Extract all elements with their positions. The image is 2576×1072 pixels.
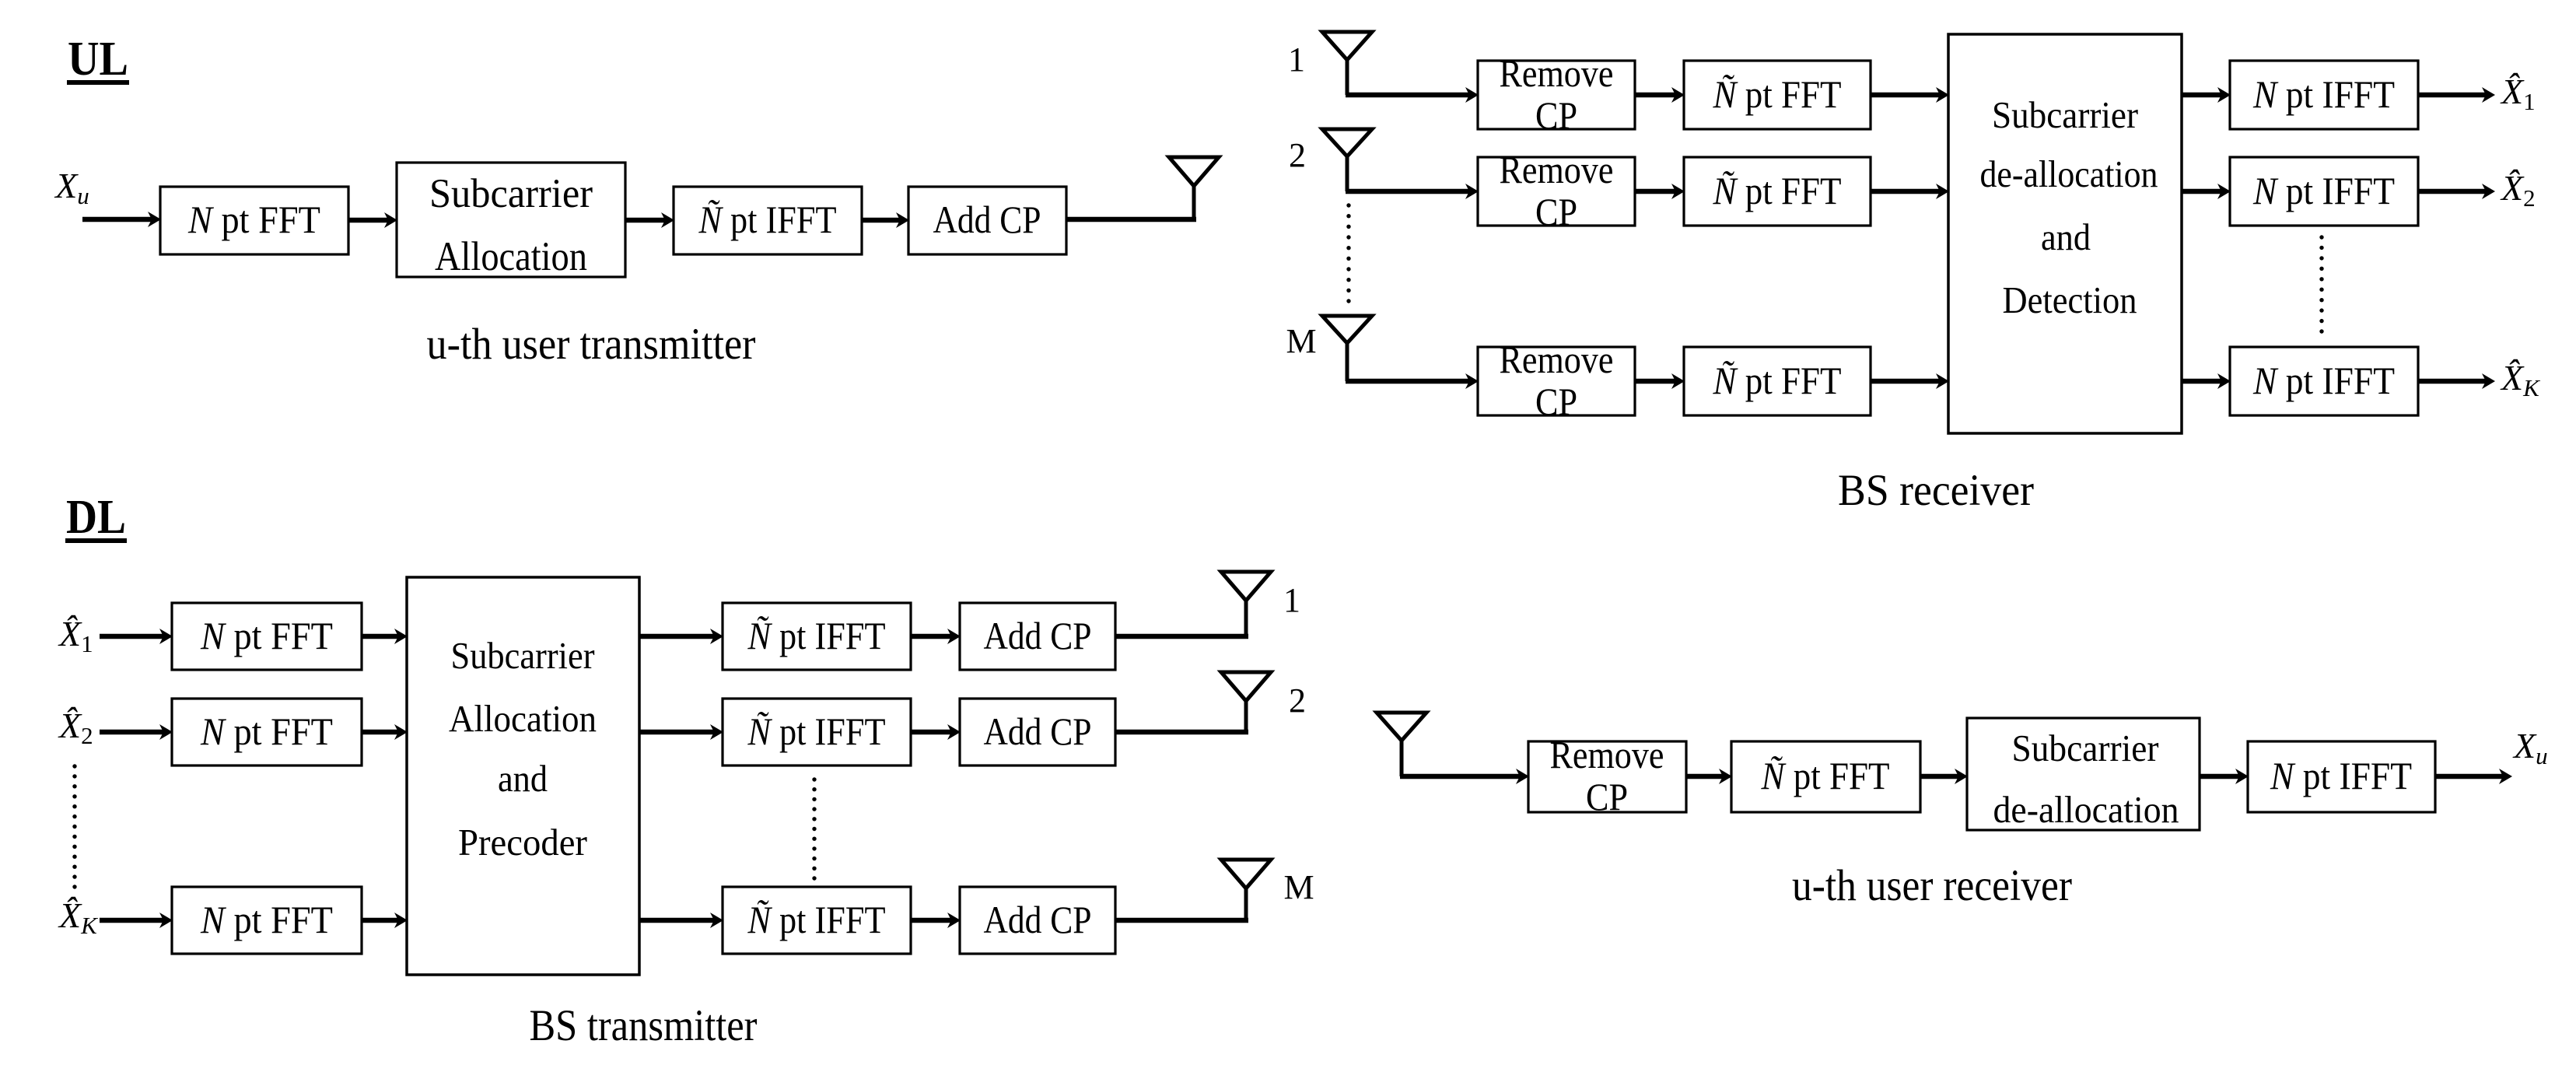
svg-text:and: and <box>498 757 548 800</box>
wire Remove CP to Ntilde pt FFT (row M) <box>1635 373 1685 389</box>
svg-text:Precoder: Precoder <box>458 821 587 864</box>
wire N pt IFFT to X^1 <box>2418 87 2495 103</box>
svg-text:and: and <box>2041 215 2091 258</box>
block Ntilde pt IFFT (DL row 2) <box>723 699 911 765</box>
wire N pt FFT to Allocation Precoder (row 1) <box>362 629 408 644</box>
antenna 2 (DL) <box>1221 672 1271 701</box>
svg-text:de-allocation: de-allocation <box>1980 152 2158 195</box>
wire Add CP to antenna 2 (DL) <box>1115 730 1248 735</box>
antenna 1 (DL) <box>1221 572 1271 601</box>
wire Remove CP to Ntilde pt FFT (row 1) <box>1635 87 1685 103</box>
block Ntilde pt IFFT (DL row M) <box>723 887 911 954</box>
wire de-allocation to N pt IFFT (row M) <box>2182 373 2231 389</box>
antenna (UL tx) <box>1169 157 1219 186</box>
svg-text:BS transmitter: BS transmitter <box>530 1001 758 1050</box>
title DL underline <box>65 538 127 543</box>
block Subcarrier Allocation <box>397 163 625 277</box>
wire Ntilde pt FFT to de-allocation (row M) <box>1871 373 1949 389</box>
wire Ntilde pt IFFT to Add CP (row 2) <box>911 724 961 740</box>
svg-text:Ñ pt IFFT: Ñ pt IFFT <box>747 614 886 657</box>
antenna M stem (BS rx) <box>1346 343 1349 381</box>
svg-text:1: 1 <box>1283 581 1300 619</box>
dotted line inputs 2..K (DL) <box>72 764 76 888</box>
antenna stem (UL tx) <box>1192 186 1196 219</box>
svg-text:Add CP: Add CP <box>933 198 1041 241</box>
svg-text:CP: CP <box>1535 380 1577 423</box>
antenna stem (user rx) <box>1400 741 1404 776</box>
wire Allocation Precoder to Ntilde pt IFFT (row M) <box>639 913 723 928</box>
wire N pt FFT to Subcarrier Allocation <box>348 212 397 228</box>
svg-text:CP: CP <box>1535 93 1577 137</box>
dotted line antennas 2..M (BS rx) <box>1346 203 1350 303</box>
dotted line N pt IFFT 2..K (BS rx) <box>2319 235 2323 333</box>
block Subcarrier de-allocation and Detection <box>1948 34 2182 433</box>
svg-text:1: 1 <box>1288 40 1305 79</box>
wire Allocation Precoder to Ntilde pt IFFT (row 2) <box>639 724 723 740</box>
wire N pt FFT to Allocation Precoder (row 2) <box>362 724 408 740</box>
block Subcarrier Allocation and Precoder <box>407 577 639 975</box>
svg-text:N pt IFFT: N pt IFFT <box>2270 754 2412 797</box>
wire Ntilde pt FFT to de-allocation (row 2) <box>1871 184 1949 199</box>
svg-text:N pt IFFT: N pt IFFT <box>2252 359 2395 402</box>
block N pt IFFT (BS rx row M) <box>2230 347 2418 415</box>
svg-text:Ñ pt FFT: Ñ pt FFT <box>1713 359 1842 402</box>
wire de-allocation to N pt IFFT (row 2) <box>2182 184 2231 199</box>
wire antenna 2 to Remove CP <box>1346 184 1479 199</box>
block N pt FFT (DL row 2) <box>172 699 362 765</box>
block Add CP (UL) <box>908 187 1066 254</box>
antenna M (DL) <box>1221 860 1271 888</box>
svg-text:Remove: Remove <box>1500 148 1614 191</box>
block Remove CP (BS rx row 1) <box>1478 61 1635 129</box>
block Ntilde pt FFT (BS rx row 1) <box>1684 61 1871 129</box>
wire N pt IFFT to X^K <box>2418 373 2495 389</box>
svg-text:Remove: Remove <box>1550 733 1664 776</box>
svg-text:u-th user transmitter: u-th user transmitter <box>427 320 756 369</box>
wire de-allocation to N pt IFFT (user rx) <box>2200 769 2249 784</box>
block Subcarrier de-allocation (user rx) <box>1967 718 2200 830</box>
svg-text:Allocation: Allocation <box>449 697 597 740</box>
wire Add CP to antenna 1 (DL) <box>1115 634 1248 639</box>
svg-text:Allocation: Allocation <box>435 234 587 279</box>
wire Ntilde pt IFFT to Add CP (row M) <box>911 913 961 928</box>
wire Allocation Precoder to Ntilde pt IFFT (row 1) <box>639 629 723 644</box>
svg-text:BS receiver: BS receiver <box>1838 466 2034 515</box>
svg-text:UL: UL <box>68 33 128 86</box>
title UL underline <box>67 80 129 85</box>
svg-text:Subcarrier: Subcarrier <box>429 171 593 216</box>
wire N pt IFFT to Xu output <box>2435 769 2512 784</box>
svg-text:Ñ pt IFFT: Ñ pt IFFT <box>698 198 837 241</box>
svg-text:N pt FFT: N pt FFT <box>200 898 333 941</box>
svg-text:Subcarrier: Subcarrier <box>1992 93 2138 136</box>
wire Ntilde pt FFT to de-allocation (row 1) <box>1871 87 1949 103</box>
svg-text:CP: CP <box>1586 775 1628 818</box>
svg-text:N pt FFT: N pt FFT <box>200 614 333 657</box>
block Add CP (DL row 1) <box>960 603 1115 670</box>
block N pt FFT (DL row 1) <box>172 603 362 670</box>
antenna 1 stem (DL) <box>1244 599 1248 636</box>
svg-text:N pt FFT: N pt FFT <box>187 198 320 241</box>
antenna 1 (BS rx) <box>1322 32 1372 60</box>
block Remove CP (BS rx row 2) <box>1478 157 1635 226</box>
svg-text:Remove: Remove <box>1500 338 1614 381</box>
svg-text:N pt IFFT: N pt IFFT <box>2252 72 2395 116</box>
svg-text:M: M <box>1283 868 1314 906</box>
block Add CP (DL row M) <box>960 887 1115 954</box>
svg-text:Subcarrier: Subcarrier <box>2012 727 2159 769</box>
svg-text:Ñ pt FFT: Ñ pt FFT <box>1713 72 1842 116</box>
svg-text:CP: CP <box>1535 190 1577 233</box>
antenna M (BS rx) <box>1322 316 1372 343</box>
svg-text:Detection: Detection <box>2003 279 2137 321</box>
svg-text:Subcarrier: Subcarrier <box>451 634 595 677</box>
wire Ntilde pt IFFT to Add CP <box>862 212 909 228</box>
svg-text:DL: DL <box>66 491 126 544</box>
svg-text:de-allocation: de-allocation <box>1993 788 2179 831</box>
wire N pt FFT to Allocation Precoder (row M) <box>362 913 408 928</box>
svg-text:Ñ pt FFT: Ñ pt FFT <box>1761 754 1890 797</box>
block Ntilde pt FFT (user rx) <box>1731 741 1920 812</box>
block N pt FFT (UL) <box>160 187 348 254</box>
svg-text:2: 2 <box>1289 136 1306 174</box>
antenna 2 stem (DL) <box>1244 699 1248 732</box>
wire Ntilde pt FFT to de-allocation (user rx) <box>1920 769 1968 784</box>
svg-text:Add CP: Add CP <box>984 614 1092 657</box>
wire Remove CP to Ntilde pt FFT (row 2) <box>1635 184 1685 199</box>
block Remove CP (user rx) <box>1528 741 1686 812</box>
wire Xu to N pt FFT <box>82 212 161 227</box>
antenna 2 stem (BS rx) <box>1346 156 1349 191</box>
antenna 1 stem (BS rx) <box>1346 60 1349 95</box>
wire Add CP to antenna M (DL) <box>1115 918 1248 923</box>
svg-text:Ñ pt FFT: Ñ pt FFT <box>1713 169 1842 212</box>
block N pt FFT (DL row M) <box>172 887 362 954</box>
svg-text:Add CP: Add CP <box>984 898 1092 941</box>
block Ntilde pt FFT (BS rx row M) <box>1684 347 1871 415</box>
svg-text:Add CP: Add CP <box>984 709 1092 753</box>
wire Subcarrier Allocation to Ntilde pt IFFT <box>625 212 674 228</box>
wire antenna 1 to Remove CP <box>1346 87 1479 103</box>
svg-text:Ñ pt IFFT: Ñ pt IFFT <box>747 898 886 941</box>
svg-text:2: 2 <box>1289 681 1306 720</box>
svg-text:Remove: Remove <box>1500 51 1614 95</box>
wire X^1 to N pt FFT <box>100 629 173 644</box>
svg-text:N pt IFFT: N pt IFFT <box>2252 169 2395 212</box>
antenna 2 (BS rx) <box>1322 129 1372 156</box>
wire X^2 to N pt FFT <box>100 724 173 740</box>
block Add CP (DL row 2) <box>960 699 1115 765</box>
block N pt IFFT (user rx) <box>2248 741 2435 812</box>
wire Ntilde pt IFFT to Add CP (row 1) <box>911 629 961 644</box>
antenna (user rx) <box>1377 713 1426 741</box>
wire antenna M to Remove CP <box>1346 373 1479 389</box>
block Remove CP (BS rx row M) <box>1478 347 1635 415</box>
wire Remove CP to Ntilde pt FFT (user rx) <box>1686 769 1732 784</box>
block Ntilde pt IFFT (DL row 1) <box>723 603 911 670</box>
wire antenna to Remove CP (user rx) <box>1400 769 1529 784</box>
svg-text:M: M <box>1286 322 1316 360</box>
svg-text:Ñ pt IFFT: Ñ pt IFFT <box>747 709 886 753</box>
wire de-allocation to N pt IFFT (row 1) <box>2182 87 2231 103</box>
svg-text:u-th user receiver: u-th user receiver <box>1792 861 2072 910</box>
block Ntilde pt FFT (BS rx row 2) <box>1684 157 1871 226</box>
antenna M stem (DL) <box>1244 887 1248 920</box>
dotted line Ntilde pt IFFT 2..M (DL) <box>812 777 816 880</box>
wire N pt IFFT to X^2 <box>2418 184 2495 199</box>
block N pt IFFT (BS rx row 2) <box>2230 157 2418 226</box>
block N pt IFFT (BS rx row 1) <box>2230 61 2418 129</box>
block Ntilde pt IFFT (UL) <box>674 187 862 254</box>
svg-text:N pt FFT: N pt FFT <box>200 709 333 753</box>
wire X^K to N pt FFT <box>100 913 173 928</box>
wire Add CP to antenna <box>1066 217 1196 222</box>
